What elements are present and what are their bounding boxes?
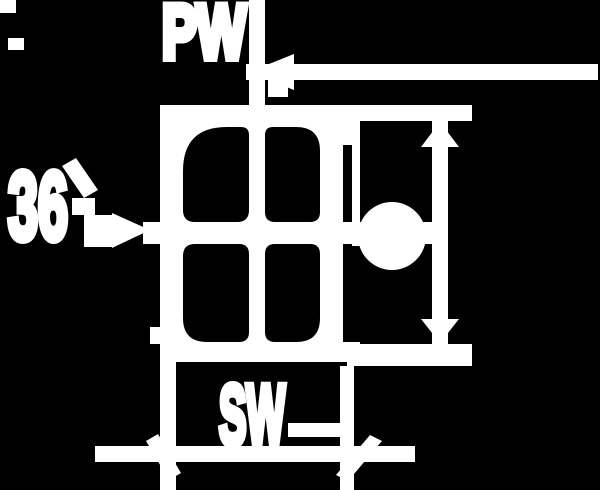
svg-text:PW: PW — [162, 0, 246, 75]
pane top-right (hole) — [265, 127, 320, 222]
speck left edge — [8, 38, 24, 50]
pane bottom-left (hole) — [183, 244, 249, 342]
fraction slash (left label) — [62, 158, 98, 198]
pane top-left (hole) — [183, 127, 249, 222]
fraction digit 8 (left label) — [72, 198, 95, 215]
arrow tail below top dimension line — [268, 80, 288, 97]
arrowhead pointing right at divider overhang — [112, 213, 150, 248]
svg-text:36: 36 — [8, 153, 68, 260]
speck top-left corner — [0, 0, 16, 13]
hole right of sash below divider — [343, 246, 360, 342]
arrowhead down (right dimension) — [421, 319, 459, 343]
frame top edge right extension line — [360, 105, 472, 121]
gap hole between sash stile and outer jamb — [343, 145, 352, 246]
short dimension line right of SW label — [288, 423, 352, 437]
right bottom extension line vertical — [340, 366, 354, 490]
wire vertical divider extension above frame — [249, 0, 265, 127]
arrowhead on top dimension line pointing left — [249, 54, 294, 90]
wire horizontal divider with left overhang and right leader to bubble — [143, 222, 432, 244]
frame body (window cross-section) — [160, 105, 360, 362]
wire top dimension line — [246, 64, 598, 80]
right vertical dimension line — [432, 121, 448, 344]
tick slash at left crossing — [146, 434, 181, 480]
arrowhead up (right dimension) — [421, 122, 459, 147]
tick slash at right crossing — [336, 435, 382, 481]
sill left overhang tab — [150, 327, 162, 344]
leader line from left label — [84, 215, 114, 247]
pane bottom-right (hole) — [265, 244, 320, 342]
long bottom dimension line — [95, 446, 415, 462]
left bottom extension line vertical — [160, 348, 176, 490]
bottom extension line (right of frame) — [347, 344, 472, 366]
circle label bubble — [358, 202, 426, 270]
